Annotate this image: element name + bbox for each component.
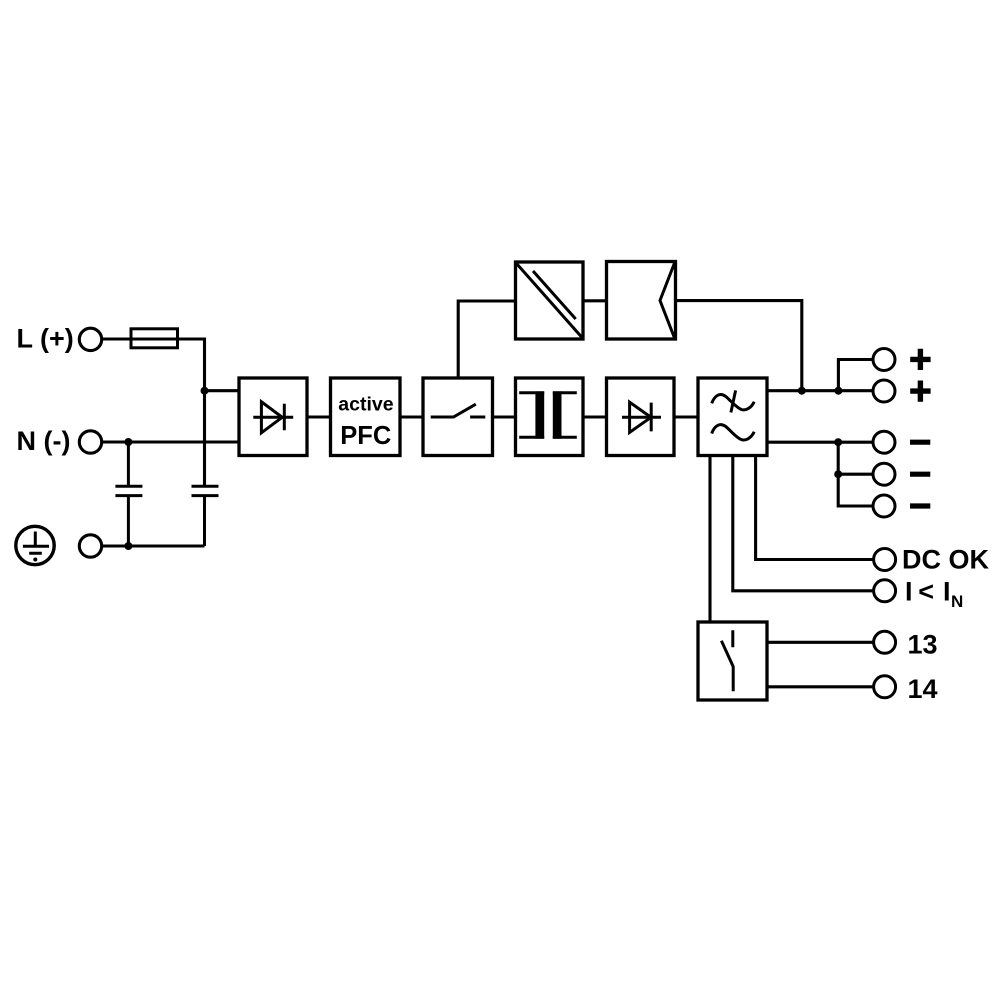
sine symbol	[712, 425, 755, 440]
wire filter minus output	[767, 441, 872, 444]
svg-text:I: I	[943, 577, 951, 607]
label 14	[908, 674, 938, 704]
wire switch top to upper branch	[458, 301, 515, 378]
label active	[338, 394, 393, 416]
node junction PE / capacitor C1	[124, 542, 132, 550]
wire relay to terminal 13	[767, 641, 873, 644]
svg-text:active: active	[338, 394, 393, 416]
wire filter to relay	[708, 456, 711, 623]
node top output junction	[798, 387, 806, 395]
capacitor C1	[115, 442, 142, 546]
label I < IN	[905, 577, 963, 611]
wire N terminal to rectifier bottom input	[102, 440, 239, 443]
svg-text:<: <	[918, 577, 934, 607]
wire rectifier to PFC	[307, 415, 331, 418]
wire diode to filter	[674, 415, 698, 418]
terminal plus 1	[873, 349, 895, 371]
svg-text:I: I	[905, 577, 913, 607]
transformer windings symbol	[519, 391, 577, 438]
chevron symbol in feedback block	[660, 263, 675, 338]
terminal PE	[79, 535, 101, 557]
fuse F1	[131, 329, 178, 348]
wire switch to transformer	[493, 415, 516, 418]
label DC OK	[902, 545, 990, 575]
wire minus bus down	[838, 442, 872, 506]
wire relay to terminal 14	[767, 685, 873, 688]
switch block S1	[423, 378, 493, 456]
terminal DC OK	[874, 549, 896, 571]
svg-text:L (+): L (+)	[17, 323, 74, 353]
terminal minus 3	[873, 495, 895, 517]
label minus 1	[910, 440, 930, 445]
wire feedback block to output node	[676, 301, 802, 391]
svg-text:14: 14	[908, 674, 938, 704]
diode block D1	[607, 378, 675, 456]
svg-text:N: N	[951, 592, 963, 611]
terminal plus 2	[873, 380, 895, 402]
wire to minus terminal 2	[838, 473, 872, 476]
wire L terminal to fuse and down to junction	[102, 339, 204, 391]
wire L-line down to capacitor C2	[203, 391, 206, 487]
wire filter to DC OK terminal	[756, 456, 874, 560]
transformer T1 block	[516, 378, 584, 456]
wire PE terminal to capacitors	[102, 544, 204, 547]
wire filter to I<IN terminal	[733, 456, 874, 591]
label 13	[908, 629, 938, 659]
DC/DC converter block U3	[516, 262, 584, 339]
node junction N / capacitor C1	[124, 438, 132, 446]
svg-text:13: 13	[908, 629, 938, 659]
terminal minus 1	[873, 431, 895, 453]
label L (+)	[17, 323, 74, 353]
PFC block U2	[331, 378, 401, 456]
node plus branch junction	[834, 387, 842, 395]
terminal L	[79, 328, 101, 350]
capacitor C2	[192, 486, 219, 546]
node minus junction 1	[834, 438, 842, 446]
wire filter plus output	[767, 389, 873, 392]
wire branch to upper plus terminal	[838, 360, 872, 391]
filtered sine symbol	[712, 390, 755, 412]
label PFC	[340, 422, 391, 450]
filter block U5	[698, 378, 767, 456]
label N (-)	[17, 426, 71, 456]
switch contact symbol	[431, 404, 486, 417]
diagonal symbol in DC/DC block	[517, 264, 583, 338]
terminal N	[79, 431, 101, 453]
diode symbol	[622, 402, 661, 432]
label minus 2	[910, 472, 930, 477]
relay block K1	[698, 622, 767, 700]
label plus 2	[910, 381, 930, 402]
label plus 1	[910, 349, 930, 370]
terminal minus 2	[873, 463, 895, 485]
svg-text:N (-): N (-)	[17, 426, 71, 456]
rectifier block U1	[239, 378, 307, 456]
label minus 3	[910, 503, 930, 508]
node minus junction 2	[834, 470, 842, 478]
svg-text:DC OK: DC OK	[902, 545, 990, 575]
ground PE symbol	[16, 526, 54, 564]
feedback block U4	[607, 262, 676, 340]
node junction L-line / rectifier input	[201, 387, 209, 395]
terminal 13	[874, 631, 896, 653]
wire PFC to switch	[400, 415, 423, 418]
relay contact symbol	[721, 630, 733, 691]
terminal 14	[874, 676, 896, 698]
svg-text:PFC: PFC	[340, 422, 391, 450]
terminal I<IN	[874, 580, 896, 602]
wire transformer to diode	[583, 415, 607, 418]
wire DC/DC to feedback block	[583, 299, 607, 302]
diode symbol in rectifier	[253, 402, 293, 433]
wire junction to rectifier top input	[205, 389, 240, 392]
